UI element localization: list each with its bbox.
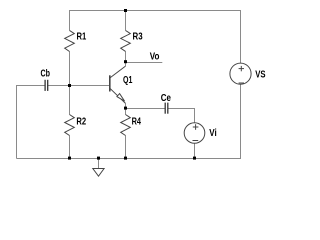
ground [93,159,104,177]
svg-text:R3: R3 [133,32,143,43]
wire R3 bottom lead to collector node [125,51,127,66]
wire R4 bottom lead [125,136,127,159]
wire left rail from Cb [17,86,46,159]
svg-text:R2: R2 [76,117,86,128]
wire Ce to Vi [168,109,195,123]
svg-text:Vi: Vi [209,128,217,139]
resistor R2 [65,115,75,136]
capacitor Cb [45,80,48,91]
node dot top R3 [124,9,127,12]
svg-text:R1: R1 [77,32,87,43]
source Vi [184,123,205,144]
node dot base junction [68,84,71,87]
svg-text:Ce: Ce [161,93,172,104]
node dot Vi bottom [193,157,196,160]
wire R1-R2 link [69,52,71,115]
capacitor Ce [165,103,168,114]
node dot collector [124,60,127,63]
node dot R4 bottom [124,157,127,160]
resistor R3 [121,30,131,51]
wire top rail [70,11,241,64]
svg-text:VS: VS [255,70,266,81]
wire R2 bottom lead [69,136,71,159]
resistor R1 [65,30,75,51]
node dot emitter [124,107,127,110]
wire bottom rail [17,84,241,158]
wire Vi bottom lead [194,143,196,158]
node dot ground [97,157,100,160]
resistor R4 [121,115,131,136]
svg-text:Q1: Q1 [123,75,133,86]
svg-text:R4: R4 [132,117,142,128]
wire base segment from Cb to Q1 [48,85,110,87]
source VS [230,63,251,84]
transistor Q1 [110,66,126,103]
wire emitter to Ce [126,103,166,114]
svg-text:Cb: Cb [41,69,51,80]
wire R3 top lead [125,11,127,31]
wire Vo stub [126,62,163,64]
svg-text:Vo: Vo [150,52,160,63]
node dot R2 bottom [68,157,71,160]
